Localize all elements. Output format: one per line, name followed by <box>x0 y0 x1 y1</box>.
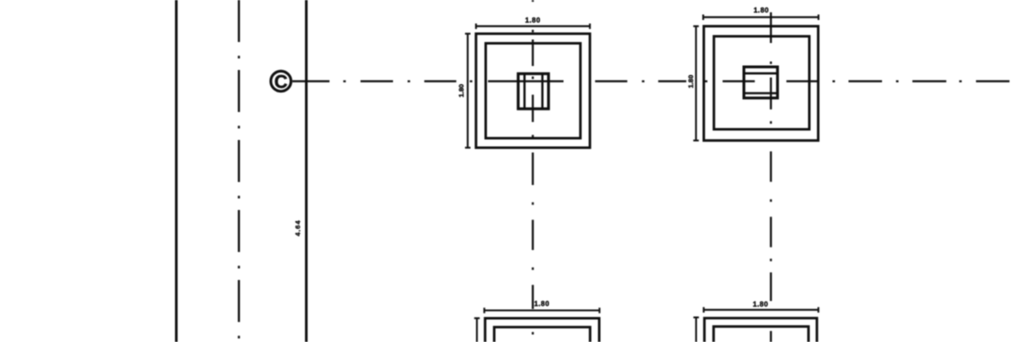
footing F1 inner square <box>486 43 581 138</box>
column C1 rectangle <box>518 74 548 109</box>
footing F2 top dimension line <box>703 15 818 21</box>
wall line left <box>175 0 178 342</box>
column C1 inner vertical line left <box>523 74 525 109</box>
column C2 inner horizontal line top <box>744 72 778 74</box>
footing F2 vertical centerline x=770.9 <box>770 12 772 342</box>
footing B1 outer square (bottom, cut off) <box>485 318 599 342</box>
footing B2 left dimension line <box>693 317 699 342</box>
footing B1 left dimension line <box>474 318 480 342</box>
footing B1 inner square <box>494 327 590 342</box>
footing B1 top dimension line <box>484 308 599 314</box>
wall line right <box>305 0 308 342</box>
column C1 inner vertical line right <box>541 74 543 109</box>
svg-text:C: C <box>274 71 287 92</box>
svg-text:1.80: 1.80 <box>458 84 465 97</box>
footing B2 outer square (bottom, cut off) <box>704 318 817 342</box>
footing B2 inner square <box>714 327 809 342</box>
svg-text:4.64: 4.64 <box>295 220 302 236</box>
svg-text:1.80: 1.80 <box>688 75 695 88</box>
column C2 rectangle <box>744 67 778 98</box>
grid bubble C circle <box>271 71 291 91</box>
footing F1 outer square <box>476 34 590 148</box>
grid line C horizontal centerline y=81.3 <box>292 80 1009 82</box>
column C2 inner horizontal line bottom <box>744 92 778 94</box>
footing F1 top dimension line <box>476 24 590 30</box>
footing B2 top dimension line <box>704 307 819 313</box>
footing F2 inner square <box>714 36 809 129</box>
svg-text:1.80: 1.80 <box>753 302 768 309</box>
svg-text:1.80: 1.80 <box>534 301 549 308</box>
svg-text:1.80: 1.80 <box>525 17 540 24</box>
svg-text:1.80: 1.80 <box>754 8 769 15</box>
footing F2 outer square <box>704 26 818 140</box>
footing F1 vertical centerline x=532.8 <box>532 0 534 335</box>
footing F1 left dimension line <box>465 34 471 148</box>
footing F2 left dimension line <box>693 26 699 140</box>
grid centerline vertical dash-dot at x=238.9 <box>238 0 240 338</box>
